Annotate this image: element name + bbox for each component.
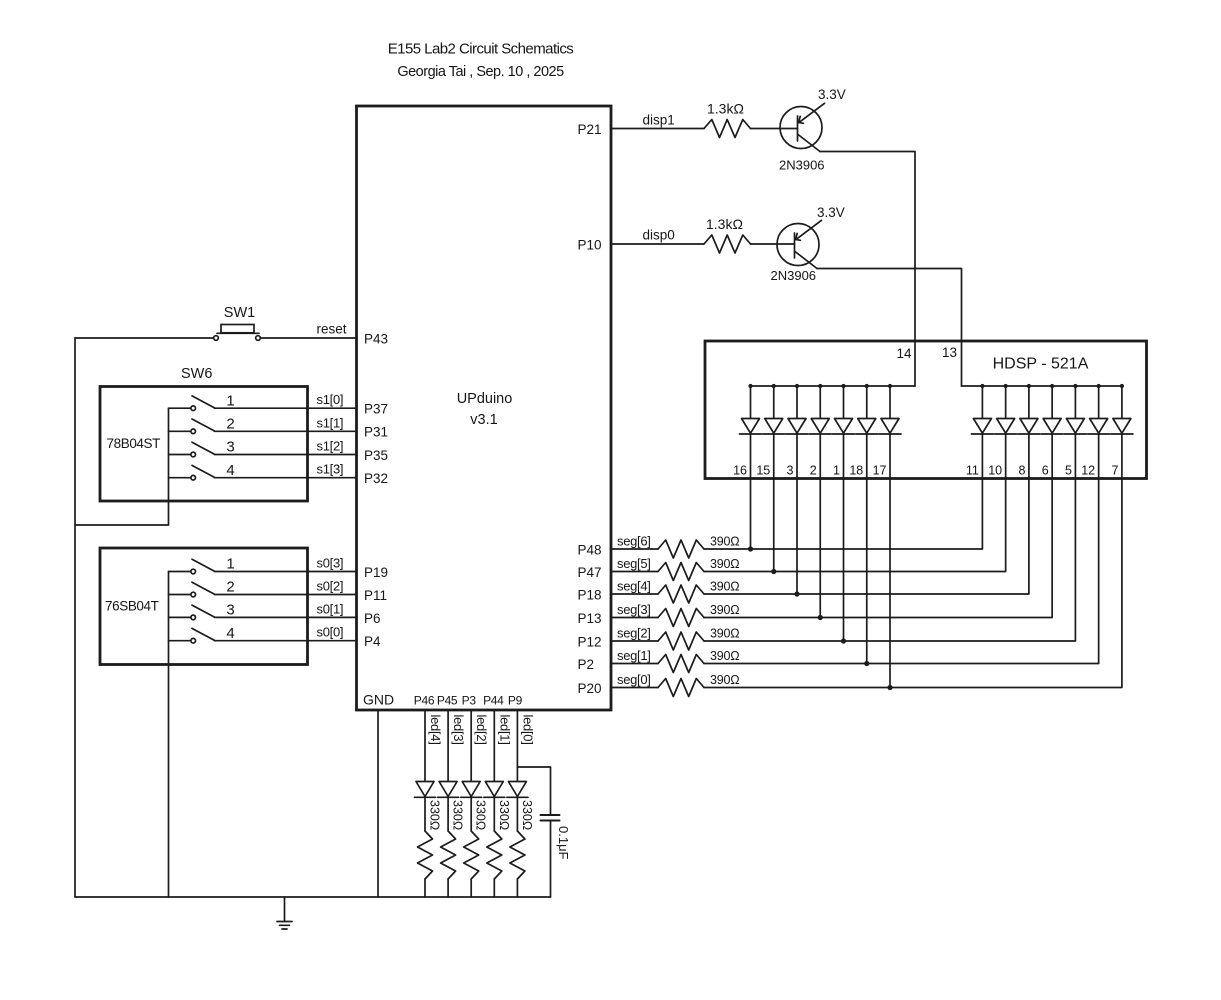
net label reset: [317, 322, 347, 337]
svg-text:P45: P45: [437, 694, 458, 708]
svg-text:P9: P9: [508, 694, 523, 708]
label UPduino v3.1: [457, 391, 513, 428]
svg-text:10: 10: [988, 464, 1002, 478]
switch SW6-1: [169, 396, 215, 411]
svg-text:P46: P46: [414, 694, 435, 708]
pin label P11: [364, 588, 387, 603]
junction dot anode bus: [888, 384, 892, 388]
junction dot seg[4]: [794, 591, 799, 596]
pin label P32: [364, 471, 388, 486]
anode bus right digit: [962, 385, 1122, 387]
value label 1.3kΩ: [707, 101, 744, 117]
DIP switch 76SB04T outline: [100, 548, 308, 665]
junction dot anode bus: [1027, 384, 1031, 388]
wire s1[2] to FPGA: [215, 454, 357, 456]
net label seg[2]: [617, 626, 651, 641]
anode bus left digit: [751, 385, 916, 387]
switch SW6-2: [169, 419, 215, 434]
wire s1[0] to FPGA: [215, 407, 357, 409]
svg-text:2: 2: [226, 579, 234, 596]
net label seg[3]: [617, 602, 651, 617]
resistor 330Ω R13: [487, 831, 502, 879]
svg-text:s1[0]: s1[0]: [317, 392, 344, 407]
resistor R2 1.3kΩ: [704, 235, 751, 253]
wire left digit pin 16 drop: [750, 479, 752, 550]
svg-text:P43: P43: [364, 331, 388, 346]
svg-text:0.1μF: 0.1μF: [556, 826, 571, 860]
svg-text:seg[0]: seg[0]: [617, 672, 651, 687]
LED segment right digit pin 8: [1018, 386, 1040, 479]
svg-text:76SB04T: 76SB04T: [105, 599, 159, 614]
resistor 390Ω R5: [658, 585, 704, 603]
pin number 2: [810, 464, 817, 478]
wire seg[0] from FPGA: [611, 687, 658, 689]
pin number 13: [942, 345, 957, 360]
svg-text:disp0: disp0: [643, 228, 675, 243]
svg-text:P12: P12: [578, 635, 602, 650]
LED segment left digit pin 16: [740, 386, 762, 479]
pin number 15: [756, 464, 770, 478]
net label led[4]: [428, 715, 443, 745]
resistor 330Ω R10: [418, 831, 433, 879]
pin number 7: [1111, 464, 1118, 478]
wire s0[1] to FPGA: [215, 616, 357, 618]
resistor 390Ω R6: [658, 609, 704, 627]
net label seg[4]: [617, 579, 651, 594]
pin number 17: [873, 464, 887, 478]
junction dot seg[5]: [771, 569, 776, 574]
pin label P2: [578, 657, 595, 672]
wire left digit pin 2 drop: [819, 479, 821, 618]
svg-text:HDSP - 521A: HDSP - 521A: [993, 356, 1089, 373]
svg-text:led[1]: led[1]: [497, 715, 512, 745]
switch position number 2: [226, 579, 234, 596]
pin label P13: [578, 611, 602, 626]
pin label P10: [578, 238, 602, 253]
svg-text:seg[4]: seg[4]: [617, 579, 651, 594]
switch position number 4: [226, 462, 234, 479]
display HDSP-521A outline: [705, 341, 1147, 479]
pin label P47: [578, 565, 602, 580]
pin number 1: [833, 464, 840, 478]
label 78B04ST: [107, 436, 161, 451]
wire led[0] node to capacitor: [517, 767, 550, 815]
switch position number 1: [226, 556, 234, 573]
junction dot anode bus: [795, 384, 799, 388]
power label 3.3V for Q2: [817, 205, 845, 220]
power label 3.3V for Q1: [818, 87, 846, 102]
pin label P37: [364, 402, 388, 417]
pin label P12: [578, 635, 602, 650]
svg-text:s0[1]: s0[1]: [317, 601, 344, 616]
svg-text:3.3V: 3.3V: [817, 205, 845, 220]
junction dot anode bus: [772, 384, 776, 388]
label SW1: [224, 305, 255, 321]
pin label P20: [578, 681, 602, 696]
pin label P46: [414, 694, 435, 708]
wire capacitor to ground rail: [550, 821, 552, 898]
pin number 16: [733, 464, 747, 478]
svg-text:P44: P44: [483, 694, 504, 708]
junction dot anode bus: [841, 384, 845, 388]
svg-text:P48: P48: [578, 543, 602, 558]
LED segment left digit pin 18: [856, 386, 878, 479]
value label 330Ω: [474, 800, 488, 830]
wire P10 disp0: [611, 243, 704, 245]
wire left digit pin 3 drop: [796, 479, 798, 595]
svg-text:16: 16: [733, 464, 747, 478]
net label s0[3]: [317, 556, 344, 571]
wire resistor to Q1 base: [751, 128, 798, 130]
wire seg[0] to display pins: [704, 479, 1122, 688]
junction dot anode bus: [1097, 384, 1101, 388]
wire s0[3] to FPGA: [215, 571, 357, 573]
junction dot anode bus: [1073, 384, 1077, 388]
svg-text:P11: P11: [364, 588, 387, 603]
resistor 390Ω R3: [658, 540, 704, 558]
svg-text:390Ω: 390Ω: [710, 580, 739, 594]
net label s1[3]: [317, 462, 344, 477]
pin number 11: [966, 464, 979, 478]
svg-text:2N3906: 2N3906: [779, 158, 825, 173]
LED segment left digit pin 1: [833, 386, 855, 479]
net label seg[0]: [617, 672, 651, 687]
svg-text:reset: reset: [317, 322, 347, 337]
wire 76SB04T common bus to ground rail: [168, 572, 170, 898]
switch 76SB04T-1: [169, 559, 215, 574]
pin number 14: [896, 346, 912, 361]
resistor 330Ω R11: [441, 831, 456, 879]
resistor 330Ω R14: [510, 831, 525, 879]
wire seg[3] from FPGA: [611, 617, 658, 619]
svg-text:seg[1]: seg[1]: [617, 648, 651, 663]
wire seg[6] from FPGA: [611, 548, 658, 550]
junction dot anode bus: [1004, 384, 1008, 388]
resistor 390Ω R9: [658, 679, 704, 697]
wire seg[1] to display pins: [704, 479, 1099, 664]
svg-text:UPduino: UPduino: [457, 391, 513, 407]
svg-text:P31: P31: [364, 425, 388, 440]
svg-text:390Ω: 390Ω: [710, 557, 739, 571]
svg-text:4: 4: [226, 462, 234, 479]
svg-text:390Ω: 390Ω: [710, 535, 739, 549]
svg-text:8: 8: [1018, 464, 1025, 478]
svg-text:1.3kΩ: 1.3kΩ: [707, 101, 744, 117]
wire seg[3] to display pins: [704, 479, 1052, 618]
label 76SB04T: [105, 599, 159, 614]
svg-text:P35: P35: [364, 448, 388, 463]
switch position number 3: [226, 439, 234, 456]
net label seg[1]: [617, 648, 651, 663]
svg-text:78B04ST: 78B04ST: [107, 436, 161, 451]
net label led[2]: [474, 715, 489, 745]
svg-text:s0[3]: s0[3]: [317, 556, 344, 571]
svg-text:SW1: SW1: [224, 305, 255, 321]
value label 390Ω: [710, 580, 739, 594]
svg-text:s1[3]: s1[3]: [317, 462, 344, 477]
svg-text:seg[5]: seg[5]: [617, 556, 651, 571]
net label s1[0]: [317, 392, 344, 407]
svg-text:330Ω: 330Ω: [474, 800, 488, 830]
net label led[1]: [497, 715, 512, 745]
svg-text:12: 12: [1081, 464, 1095, 478]
junction dot seg[3]: [818, 615, 823, 620]
value label 0.1uF: [556, 826, 571, 860]
LED D3: [461, 782, 482, 798]
wire seg[5] from FPGA: [611, 571, 658, 573]
svg-text:2: 2: [810, 464, 817, 478]
transistor Q2 2N3906 PNP: [777, 220, 822, 268]
value label 390Ω: [710, 627, 739, 641]
svg-text:P18: P18: [578, 588, 602, 603]
switch position number 4: [226, 625, 234, 642]
svg-text:2N3906: 2N3906: [771, 268, 817, 283]
label 2N3906 for Q1: [779, 158, 825, 173]
svg-text:P19: P19: [364, 565, 388, 580]
switch 76SB04T-3: [169, 605, 215, 620]
svg-text:330Ω: 330Ω: [520, 800, 534, 830]
capacitor C1 0.1uF: [541, 815, 560, 821]
svg-text:Georgia Tai , Sep. 10 , 2025: Georgia Tai , Sep. 10 , 2025: [397, 64, 564, 80]
svg-text:P4: P4: [364, 634, 381, 649]
junction dot seg[1]: [864, 661, 869, 666]
switch SW6-3: [169, 442, 215, 457]
svg-text:330Ω: 330Ω: [451, 800, 465, 830]
pin label P45: [437, 694, 458, 708]
svg-text:P47: P47: [578, 565, 602, 580]
wire led[1] column: [493, 710, 495, 897]
svg-text:1: 1: [226, 392, 234, 409]
svg-text:390Ω: 390Ω: [710, 627, 739, 641]
pin label P4: [364, 634, 381, 649]
pin number 12: [1081, 464, 1095, 478]
svg-text:14: 14: [896, 346, 912, 361]
svg-text:4: 4: [226, 625, 234, 642]
svg-text:GND: GND: [363, 692, 394, 708]
svg-text:3: 3: [226, 602, 234, 619]
svg-text:330Ω: 330Ω: [428, 800, 442, 830]
net label disp1: [643, 113, 675, 128]
wire seg[4] from FPGA: [611, 593, 658, 595]
svg-text:P32: P32: [364, 471, 388, 486]
svg-text:330Ω: 330Ω: [497, 800, 511, 830]
wire resistor to Q2 base: [751, 243, 795, 245]
net label seg[5]: [617, 556, 651, 571]
junction dot anode bus: [1050, 384, 1054, 388]
svg-text:6: 6: [1042, 464, 1049, 478]
pin label P3: [462, 694, 477, 708]
pin label P43: [364, 331, 388, 346]
resistor 390Ω R7: [658, 632, 704, 650]
junction dot anode bus: [980, 384, 984, 388]
transistor Q1 2N3906 PNP: [780, 103, 825, 151]
DIP switch SW6 outline: [100, 387, 308, 502]
switch position number 3: [226, 602, 234, 619]
svg-text:15: 15: [756, 464, 770, 478]
wire Q1 collector to display pin 14: [820, 152, 915, 387]
svg-text:E155 Lab2 Circuit Schematic: E155 Lab2 Circuit Schematics: [388, 41, 574, 58]
svg-text:390Ω: 390Ω: [710, 649, 739, 663]
wire seg[2] to display pins: [704, 479, 1075, 642]
LED D2: [484, 782, 505, 798]
pushbutton SW1: [214, 325, 261, 341]
switch position number 1: [226, 392, 234, 409]
net label disp0: [643, 228, 675, 243]
wire s0[2] to FPGA: [215, 594, 357, 596]
pin number 6: [1042, 464, 1049, 478]
svg-text:P13: P13: [578, 611, 602, 626]
svg-text:3.3V: 3.3V: [818, 87, 846, 102]
value label 330Ω: [520, 800, 534, 830]
resistor 390Ω R4: [658, 563, 704, 581]
net label s0[0]: [317, 625, 344, 640]
pin number 8: [1018, 464, 1025, 478]
wire left digit pin 1 drop: [843, 479, 845, 642]
pin label P18: [578, 588, 602, 603]
pin label P48: [578, 543, 602, 558]
LED segment right digit pin 12: [1088, 386, 1110, 479]
wire left digit pin 15 drop: [773, 479, 775, 572]
svg-text:P2: P2: [578, 657, 595, 672]
resistor 330Ω R12: [464, 831, 479, 879]
wire seg[4] to display pins: [704, 479, 1029, 595]
LED D1: [507, 782, 528, 798]
wire seg[1] from FPGA: [611, 663, 658, 665]
svg-text:P37: P37: [364, 402, 388, 417]
LED segment right digit pin 7: [1111, 386, 1133, 479]
wire seg[6] to display pins: [704, 479, 982, 550]
value label 390Ω: [710, 603, 739, 617]
wire s0[0] to FPGA: [215, 640, 357, 642]
label 2N3906 for Q2: [771, 268, 817, 283]
resistor 390Ω R8: [658, 655, 704, 673]
net label s1[1]: [317, 415, 344, 430]
svg-text:1: 1: [226, 556, 234, 573]
junction dot anode bus: [865, 384, 869, 388]
pin label P44: [483, 694, 504, 708]
svg-text:led[3]: led[3]: [451, 715, 466, 745]
wire led[0] column: [516, 710, 518, 897]
value label 390Ω: [710, 557, 739, 571]
LED segment right digit pin 10: [995, 386, 1017, 479]
junction dot anode bus: [748, 384, 752, 388]
pin label P19: [364, 565, 388, 580]
wire led[4] column: [424, 710, 426, 897]
wire s1[3] to FPGA: [215, 477, 357, 479]
value label 390Ω: [710, 673, 739, 687]
svg-text:P20: P20: [578, 681, 602, 696]
value label 390Ω: [710, 535, 739, 549]
wire reset to P43: [260, 337, 356, 339]
svg-text:P21: P21: [578, 122, 602, 137]
svg-text:s1[1]: s1[1]: [317, 415, 344, 430]
svg-text:18: 18: [849, 464, 863, 478]
label SW6: [181, 366, 212, 382]
svg-text:s0[2]: s0[2]: [317, 579, 344, 594]
wire left digit pin 17 drop: [889, 479, 891, 688]
wire s1[1] to FPGA: [215, 430, 357, 432]
switch 76SB04T-4: [169, 628, 215, 643]
pin label P9: [508, 694, 523, 708]
junction dot seg[6]: [748, 546, 753, 551]
wire Q2 collector to display pin 13: [817, 269, 962, 387]
pin number 5: [1065, 464, 1072, 478]
svg-text:7: 7: [1111, 464, 1118, 478]
value label 390Ω: [710, 649, 739, 663]
svg-text:3: 3: [226, 439, 234, 456]
pin label P6: [364, 611, 381, 626]
net label seg[6]: [617, 534, 651, 549]
pin label P31: [364, 425, 388, 440]
value label 1.3kΩ: [706, 216, 743, 232]
LED segment left digit pin 2: [809, 386, 831, 479]
junction dot anode bus: [818, 384, 822, 388]
svg-text:seg[6]: seg[6]: [617, 534, 651, 549]
svg-text:SW6: SW6: [181, 366, 212, 382]
title text line 1: [388, 41, 574, 58]
svg-text:5: 5: [1065, 464, 1072, 478]
net label s0[1]: [317, 601, 344, 616]
svg-text:17: 17: [873, 464, 887, 478]
svg-text:P10: P10: [578, 238, 602, 253]
svg-text:v3.1: v3.1: [470, 412, 497, 428]
pin number 10: [988, 464, 1002, 478]
LED D4: [438, 782, 459, 798]
junction dot seg[0]: [887, 685, 892, 690]
svg-text:s1[2]: s1[2]: [317, 439, 344, 454]
net label s0[2]: [317, 579, 344, 594]
svg-text:led[0]: led[0]: [520, 715, 535, 745]
LED segment right digit pin 6: [1041, 386, 1063, 479]
value label 330Ω: [497, 800, 511, 830]
pin label GND: [363, 692, 394, 708]
ground symbol: [277, 897, 292, 929]
net label s1[2]: [317, 439, 344, 454]
switch 76SB04T-2: [169, 582, 215, 597]
value label 330Ω: [451, 800, 465, 830]
svg-text:led[4]: led[4]: [428, 715, 443, 745]
wire P21 disp1: [611, 128, 704, 130]
LED segment right digit pin 11: [971, 386, 993, 479]
label HDSP-521A: [993, 356, 1089, 373]
net label led[3]: [451, 715, 466, 745]
pin label P21: [578, 122, 602, 137]
svg-text:P3: P3: [462, 694, 477, 708]
junction dot seg[2]: [841, 638, 846, 643]
wire GND pin to ground rail: [377, 710, 379, 897]
svg-text:disp1: disp1: [643, 113, 675, 128]
svg-text:P6: P6: [364, 611, 381, 626]
svg-text:2: 2: [226, 416, 234, 433]
svg-text:led[2]: led[2]: [474, 715, 489, 745]
wire seg[5] to display pins: [704, 479, 1006, 572]
svg-text:3: 3: [787, 464, 794, 478]
junction dot anode bus: [1120, 384, 1124, 388]
wire left ground vertical: [74, 338, 76, 897]
title text line 2: [397, 64, 564, 80]
pin label P35: [364, 448, 388, 463]
svg-text:seg[3]: seg[3]: [617, 602, 651, 617]
svg-text:11: 11: [966, 464, 979, 478]
switch SW6-4: [169, 465, 215, 480]
wire seg[2] from FPGA: [611, 640, 658, 642]
svg-text:390Ω: 390Ω: [710, 673, 739, 687]
resistor R1 1.3kΩ: [704, 120, 751, 138]
LED segment left digit pin 15: [763, 386, 785, 479]
svg-text:390Ω: 390Ω: [710, 603, 739, 617]
LED D5: [415, 782, 436, 798]
pin number 18: [849, 464, 863, 478]
